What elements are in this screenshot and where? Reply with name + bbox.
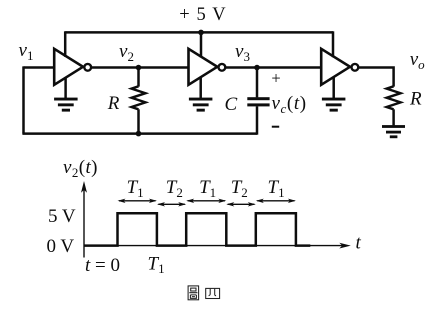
waveform v2 trace: [84, 213, 310, 245]
inverter U2: [189, 49, 226, 85]
svg-text:vc(t): vc(t): [272, 93, 307, 116]
wire ground stub U3: [332, 77, 335, 99]
svg-text:0 V: 0 V: [47, 236, 75, 257]
svg-text:+: +: [271, 69, 280, 88]
resistor R1: [132, 68, 146, 134]
svg-text:t: t: [356, 233, 362, 254]
svg-text:5 V: 5 V: [48, 206, 76, 227]
resistor R2: [387, 86, 401, 125]
inverter U3: [321, 49, 358, 85]
wire ground stub U1: [64, 77, 67, 99]
capacitor C1: [247, 68, 269, 135]
waveform y-axis: [83, 185, 85, 258]
label minus polarity: [272, 126, 279, 128]
dimension arrow T1 second: [186, 199, 226, 203]
wire power rail +5V: [65, 31, 333, 34]
svg-text:+ 5 V: + 5 V: [179, 5, 226, 25]
svg-text:C: C: [225, 94, 238, 115]
caption glyph tu (figure): [188, 286, 199, 300]
ground output: [382, 125, 405, 138]
dimension arrow T2 second: [226, 202, 256, 206]
junction on +5V rail: [198, 30, 204, 36]
node v3 junction: [254, 65, 260, 71]
wire U1 output to U2 input: [91, 66, 188, 69]
ground U2: [189, 98, 213, 112]
wire feedback bottom: [22, 132, 257, 135]
wire power stub U1: [64, 31, 67, 57]
wire input v1: [24, 66, 55, 69]
waveform y-axis arrowhead: [81, 181, 87, 193]
inverter U1: [54, 49, 91, 85]
caption glyph four: [206, 288, 220, 298]
wire power stub U2: [200, 32, 203, 57]
wire ground stub U2: [199, 77, 202, 99]
wire U2 output to U3 input: [225, 66, 321, 69]
waveform x-axis: [84, 245, 343, 247]
waveform x-axis arrowhead: [339, 243, 351, 249]
svg-text:R: R: [107, 93, 120, 114]
ground U3: [322, 98, 346, 112]
svg-text:R: R: [409, 89, 422, 110]
junction R1 to feedback wire: [136, 131, 142, 137]
svg-text:v2(t): v2(t): [63, 157, 98, 180]
node v2 junction: [136, 65, 142, 71]
ground U1: [54, 98, 78, 112]
wire U3 output: [358, 68, 393, 87]
dimension arrow T2 first: [157, 202, 186, 206]
svg-text:t = 0: t = 0: [85, 255, 120, 276]
dimension arrow T1 third: [256, 199, 296, 203]
wire feedback left vertical: [22, 66, 25, 133]
dimension arrow T1 first: [118, 199, 157, 203]
wire power stub U3: [332, 31, 335, 57]
